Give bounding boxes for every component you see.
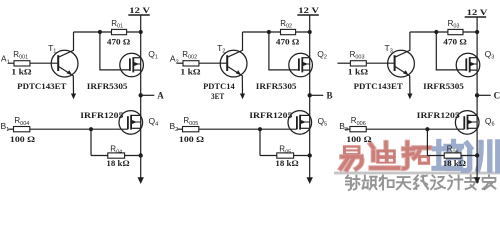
junction rail/feedback (block 1): [139, 153, 143, 157]
mosfet Q5 drain stub: [300, 114, 310, 116]
junction rail/feedback (block 2): [308, 153, 312, 157]
junction node rail/resistor (block 3): [475, 30, 479, 34]
svg-text:18 kΩ: 18 kΩ: [275, 158, 298, 168]
svg-text:IRFR1205: IRFR1205: [417, 110, 461, 120]
power rail bar +12V (block 3): [465, 16, 487, 18]
mosfet Q2 drain stub: [302, 57, 309, 59]
resistor R005 box: [183, 127, 199, 132]
mosfet Q5 source stub: [300, 127, 310, 129]
wire gate of Q1 L-shape (block 1): [100, 32, 130, 70]
wire base (block 1): [30, 62, 58, 64]
mosfet Q2 body stub with arrow: [302, 63, 309, 65]
mosfet Q2 source stub: [302, 69, 309, 71]
wire gate of Q5: [199, 128, 297, 130]
wire base (block 3): [366, 62, 394, 64]
resistor R001 box: [14, 61, 30, 66]
mosfet Q4 channel bar: [130, 115, 132, 130]
transistor T2 circle: [220, 50, 247, 77]
node C junction dot: [475, 93, 479, 97]
emitter down arrowhead (T2): [240, 94, 245, 100]
mosfet Q3 drain stub: [470, 57, 477, 59]
mosfet Q2 circle: [289, 53, 313, 77]
wire feedback horizontal (block 3): [427, 155, 477, 157]
mosfet Q1 channel bar: [132, 57, 134, 72]
power rail bar +12V (block 1): [128, 14, 150, 16]
wire collector riser (block 1): [58, 32, 73, 57]
wire collector riser (block 2): [227, 32, 242, 57]
resistor R03 box: [448, 29, 463, 34]
wire feedback drop (block 2): [259, 129, 261, 155]
svg-text:470 Ω: 470 Ω: [107, 37, 130, 47]
watermark char tuo stone box: [418, 155, 430, 165]
resistor R002 box: [183, 61, 199, 66]
wire input A3 (block 3): [337, 62, 350, 64]
svg-text:IRFR1205: IRFR1205: [249, 110, 293, 120]
wire gate of Q2 L-shape (block 2): [269, 32, 299, 70]
resistor R006 box: [350, 127, 366, 132]
wire feedback horizontal (block 2): [260, 155, 310, 157]
mosfet Q4 source stub: [131, 127, 141, 129]
watermark char di strokes: [371, 143, 399, 169]
mosfet Q2 gate bar: [298, 58, 300, 71]
junction gate/feedback (block 1): [89, 127, 93, 131]
watermark slogan text: [346, 176, 360, 191]
ground arrow at rail bottom (block 2): [307, 177, 313, 184]
mosfet Q1 circle: [120, 53, 144, 77]
mosfet Q3 body stub with arrow: [470, 63, 477, 65]
mosfet Q4 drain stub: [131, 114, 141, 116]
wire collector riser (block 3): [395, 32, 410, 57]
wire base (block 2): [199, 62, 227, 64]
svg-text:12 V: 12 V: [467, 7, 489, 17]
mosfet Q3 gate bar: [465, 58, 467, 71]
wire input B3: [345, 128, 350, 130]
wire input B2: [177, 128, 182, 130]
transistor T3 circle: [388, 50, 415, 77]
svg-text:PDTC143ET: PDTC143ET: [17, 81, 66, 91]
svg-text:PDTC143ET: PDTC143ET: [354, 81, 403, 91]
resistor R01 box: [112, 29, 127, 34]
mosfet Q5 channel bar: [299, 115, 301, 130]
mosfet Q3 circle: [456, 53, 480, 77]
emitter down arrowhead (T3): [407, 94, 412, 100]
wire gate of Q4: [30, 128, 128, 130]
mosfet Q1 source stub: [133, 69, 140, 71]
watermark char yi top box: [343, 145, 361, 154]
wire 12V rail vertical (block 1): [140, 15, 142, 178]
junction node gate/resistor (block 2): [267, 30, 271, 34]
mosfet Q4 circle: [119, 111, 143, 135]
resistor R04 box: [108, 153, 125, 158]
svg-text:1 kΩ: 1 kΩ: [11, 67, 31, 77]
mosfet Q3 source stub: [470, 69, 477, 71]
mosfet Q6 circle: [455, 111, 479, 135]
svg-text:A: A: [157, 90, 164, 100]
node A junction dot: [139, 93, 143, 97]
svg-text:100 Ω: 100 Ω: [179, 134, 204, 144]
power rail bar +12V (block 2): [297, 14, 319, 16]
wire collector to rail (block 2): [243, 31, 310, 33]
wire node C stub: [477, 94, 491, 96]
mosfet Q6 gate bar: [463, 116, 465, 129]
mosfet Q5 body stub with arrow: [300, 121, 310, 123]
resistor R02 box: [281, 29, 296, 34]
svg-text:12 V: 12 V: [298, 5, 320, 15]
junction node gate/resistor (block 3): [434, 30, 438, 34]
mosfet Q6 drain stub: [468, 114, 478, 116]
ground arrow at rail bottom (block 3): [474, 177, 480, 184]
mosfet Q1 drain stub: [133, 57, 140, 59]
svg-text:IRFR1205: IRFR1205: [80, 110, 124, 120]
watermark underline band: [334, 172, 500, 175]
mosfet Q1 gate bar: [129, 58, 131, 71]
svg-text:B: B: [326, 90, 332, 100]
mosfet Q6 source stub: [468, 127, 478, 129]
wire collector to rail (block 3): [410, 31, 477, 33]
junction node rail/resistor (block 2): [308, 30, 312, 34]
wire 12V rail vertical (block 2): [309, 15, 311, 178]
svg-text:100 Ω: 100 Ω: [10, 134, 35, 144]
watermark char di you-box: [376, 149, 396, 163]
junction node rail/resistor (block 1): [139, 30, 143, 34]
wire node B stub: [310, 94, 324, 96]
wire input A1 (block 1): [8, 62, 14, 64]
junction gate/feedback (block 2): [258, 127, 262, 131]
mosfet Q3 channel bar: [469, 57, 471, 72]
svg-text:100 Ω: 100 Ω: [346, 134, 371, 144]
transistor T2 emitter with arrow: [227, 66, 242, 94]
watermark char xun blue: [464, 142, 498, 171]
resistor R06 box: [444, 153, 461, 158]
wire gate of Q6: [366, 128, 464, 130]
resistor R003 box: [350, 61, 366, 66]
mosfet Q2 channel bar: [301, 57, 303, 72]
wire input A2 (block 2): [177, 62, 183, 64]
mosfet Q5 circle: [288, 111, 312, 135]
svg-text:12 V: 12 V: [129, 5, 151, 15]
wire gate of Q3 L-shape (block 3): [436, 32, 466, 70]
mosfet Q6 channel bar: [467, 115, 469, 130]
ground arrow at rail bottom (block 1): [138, 177, 144, 184]
watermark char tuo strokes: [404, 142, 430, 168]
svg-text:470 Ω: 470 Ω: [276, 37, 299, 47]
wire 12V rail vertical (block 3): [476, 17, 478, 178]
wire feedback horizontal (block 1): [91, 155, 141, 157]
watermark char yi strokes: [341, 157, 362, 170]
svg-text:3ET: 3ET: [211, 91, 224, 101]
mosfet Q1 body stub with arrow: [133, 63, 140, 65]
svg-text:18 kΩ: 18 kΩ: [443, 158, 466, 168]
wire feedback drop (block 3): [426, 129, 428, 155]
svg-text:IRFR5305: IRFR5305: [87, 81, 128, 91]
junction node gate/resistor (block 1): [98, 30, 102, 34]
svg-text:18 kΩ: 18 kΩ: [106, 158, 129, 168]
watermark char pei blue: [434, 141, 462, 168]
mosfet Q5 gate bar: [296, 116, 298, 129]
transistor T3 emitter with arrow: [395, 66, 410, 94]
mosfet Q4 body stub with arrow: [131, 121, 141, 123]
transistor T1 circle: [51, 50, 78, 77]
wire node A stub: [141, 94, 155, 96]
svg-text:PDTC14: PDTC14: [203, 81, 235, 91]
wire feedback drop (block 1): [90, 129, 92, 155]
svg-text:1 kΩ: 1 kΩ: [180, 67, 200, 77]
transistor T1 base bar: [57, 55, 59, 71]
svg-text:470 Ω: 470 Ω: [443, 37, 466, 47]
svg-text:IRFR5305: IRFR5305: [256, 81, 297, 91]
junction gate/feedback (block 3): [425, 127, 429, 131]
transistor T2 base bar: [226, 55, 228, 71]
wire input B1: [8, 128, 13, 130]
wire collector to rail (block 1): [74, 31, 141, 33]
mosfet Q4 gate bar: [127, 116, 129, 129]
node B junction dot: [308, 93, 312, 97]
junction rail/feedback (block 3): [475, 153, 479, 157]
transistor T3 base bar: [394, 55, 396, 71]
transistor T1 emitter with arrow: [58, 66, 73, 94]
resistor R05 box: [277, 153, 294, 158]
svg-text:IRFR5305: IRFR5305: [423, 81, 464, 91]
emitter down arrowhead (T1): [71, 94, 76, 100]
mosfet Q6 body stub with arrow: [468, 121, 478, 123]
svg-text:1 kΩ: 1 kΩ: [348, 67, 368, 77]
resistor R004 box: [14, 127, 30, 132]
svg-text:C: C: [494, 90, 500, 100]
